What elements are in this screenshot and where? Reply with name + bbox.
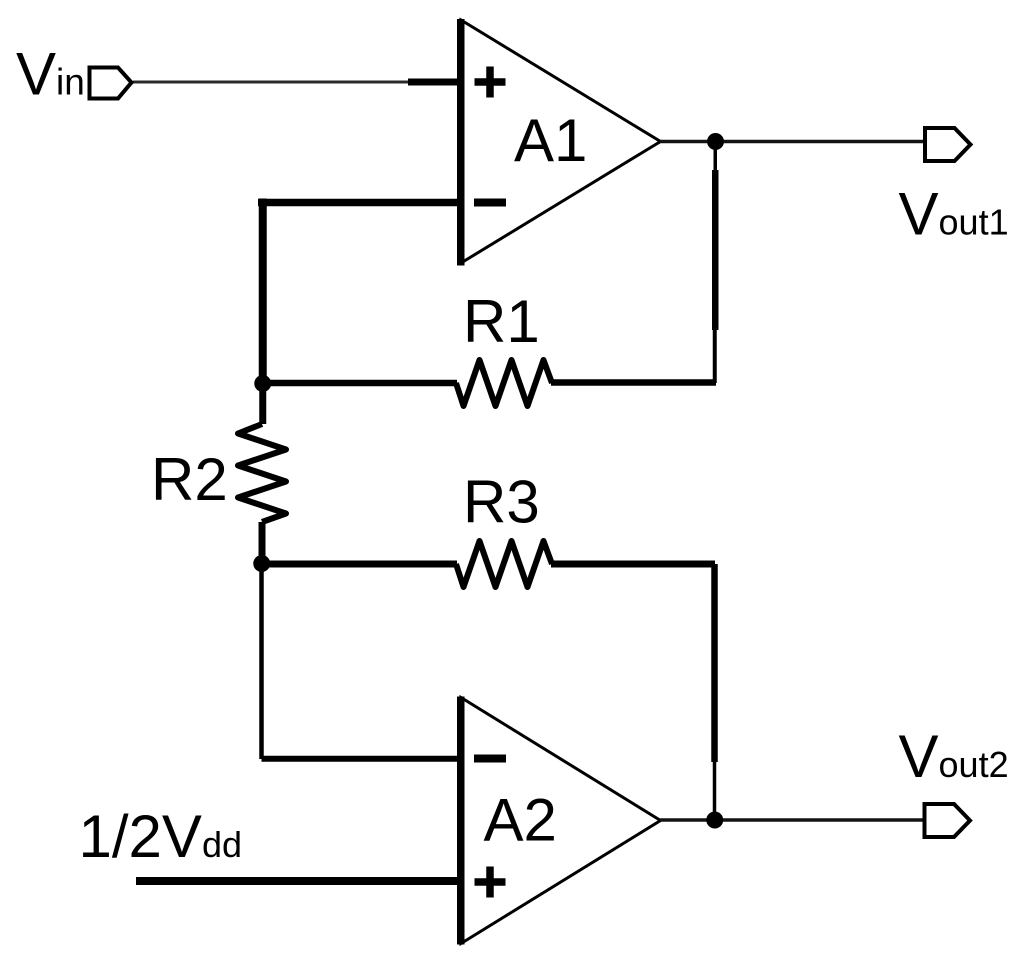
svg-text:A1: A1: [514, 107, 587, 174]
svg-text:R2: R2: [151, 446, 228, 513]
svg-text:A2: A2: [484, 787, 557, 854]
svg-text:R1: R1: [463, 288, 540, 355]
svg-text:R3: R3: [463, 469, 540, 536]
